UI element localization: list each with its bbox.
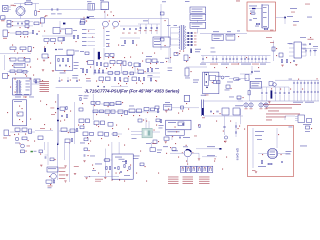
- svg-text:JL71SC7774-PSU(For (For 45"/49: JL71SC7774-PSU(For (For 45"/49" 4353 Ser…: [85, 88, 180, 93]
- svg-text:QR-QA06: QR-QA06: [236, 148, 240, 161]
